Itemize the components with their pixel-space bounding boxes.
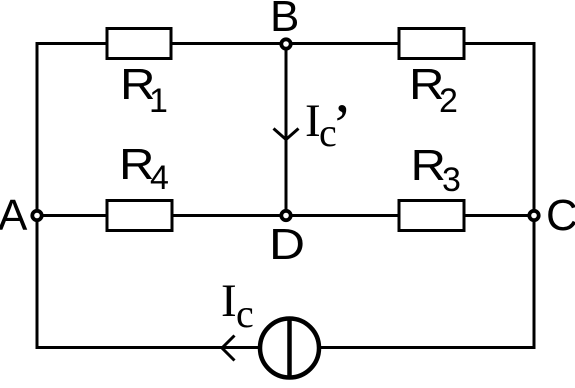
svg-text:c: c [236, 291, 254, 336]
node C [529, 211, 538, 220]
label Ic [221, 275, 254, 336]
svg-text:D: D [269, 220, 305, 269]
svg-text:4: 4 [150, 159, 169, 197]
wire top (A corner to right corner through R1, B, R2) [37, 42, 534, 45]
svg-text:2: 2 [439, 82, 458, 120]
wire B to D vertical [285, 44, 288, 216]
current source Ic (circle with vertical bar) [260, 319, 319, 378]
svg-text:A: A [0, 191, 28, 240]
node B [281, 39, 290, 48]
wire left vertical [36, 42, 39, 349]
resistor R2 [399, 29, 464, 121]
resistor R3 [399, 141, 464, 231]
svg-text:3: 3 [442, 161, 461, 199]
label Ic' [305, 92, 352, 158]
svg-text:B: B [270, 0, 299, 41]
svg-text:’: ’ [332, 92, 352, 158]
wire bottom (through current source) [37, 346, 534, 349]
wire middle (A to C through R4, D, R3) [37, 214, 534, 217]
wire right vertical [533, 42, 536, 349]
resistor R1 [107, 29, 171, 121]
arrow Ic' (down arrow on wire B-D) [274, 129, 299, 140]
svg-text:R: R [411, 141, 447, 190]
svg-text:1: 1 [149, 82, 168, 120]
svg-text:C: C [546, 191, 575, 240]
resistor R4 [107, 140, 172, 231]
node A [32, 211, 41, 220]
arrow Ic (left arrow on bottom wire) [222, 336, 235, 361]
svg-text:I: I [221, 275, 237, 327]
node D [281, 211, 290, 220]
